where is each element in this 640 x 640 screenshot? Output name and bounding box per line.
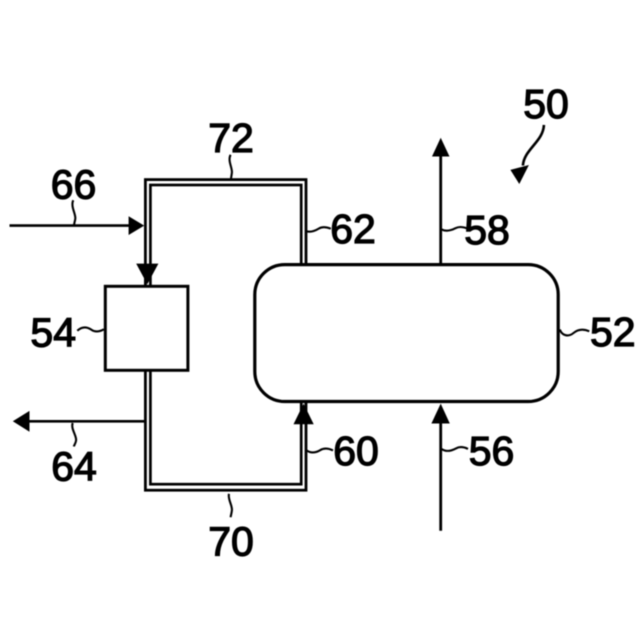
leader squiggle 56 xyxy=(442,447,468,451)
arrowhead: duct into box 54 xyxy=(136,264,158,285)
svg-text:72: 72 xyxy=(208,115,254,161)
svg-text:50: 50 xyxy=(523,81,569,127)
leader squiggle 58 xyxy=(442,227,468,231)
svg-text:64: 64 xyxy=(51,444,97,490)
arrow 66 (inlet line) xyxy=(10,224,131,227)
svg-text:54: 54 xyxy=(30,310,76,356)
wire: inner line of duct loop 70/72 xyxy=(150,185,301,484)
arrowhead 60: duct into vessel 52 xyxy=(294,404,314,425)
svg-text:62: 62 xyxy=(330,206,376,252)
arrow 56 (vessel inlet up) xyxy=(439,422,442,531)
leader squiggle 66 xyxy=(72,200,75,225)
leader squiggle 60 xyxy=(306,449,333,453)
leader squiggle 54 xyxy=(77,328,104,332)
svg-text:58: 58 xyxy=(464,207,510,253)
arrow 58 (vessel outlet up) xyxy=(439,156,442,264)
svg-text:70: 70 xyxy=(208,519,254,565)
svg-text:52: 52 xyxy=(590,309,636,355)
svg-text:60: 60 xyxy=(333,428,379,474)
leader squiggle 62 xyxy=(306,227,331,231)
svg-text:56: 56 xyxy=(469,428,515,474)
leader squiggle 64 xyxy=(72,423,76,447)
wire: outer line of duct loop 70/72 xyxy=(145,180,306,491)
leader squiggle 70 xyxy=(229,494,232,518)
arrow 64 (outlet line) xyxy=(29,420,144,423)
svg-text:66: 66 xyxy=(51,162,97,208)
leader squiggle 52 xyxy=(560,330,590,336)
vessel 52 (rounded rectangle) xyxy=(255,265,558,402)
leader arrow for 50 xyxy=(523,125,544,166)
box 54 xyxy=(105,286,188,370)
leader squiggle 72 xyxy=(230,155,232,179)
